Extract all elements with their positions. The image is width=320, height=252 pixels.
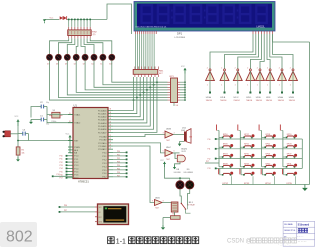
svg-text:LCD12864: LCD12864 [175, 37, 186, 39]
inverter U2:D [246, 67, 255, 101]
svg-text:P30: P30 [117, 151, 120, 153]
inverter U3:A [278, 67, 287, 101]
svg-text:KP30: KP30 [266, 163, 271, 165]
wire net label near keypad [205, 161, 219, 163]
keypad button KP20 [219, 144, 233, 148]
svg-text:74HC04: 74HC04 [256, 100, 262, 102]
svg-text:P32: P32 [117, 158, 120, 160]
LED D6 [55, 54, 61, 65]
svg-text:P0.1/AD1: P0.1/AD1 [98, 112, 107, 115]
svg-text:P13: P13 [60, 165, 63, 167]
svg-text:KP20: KP20 [223, 144, 228, 146]
wire P2 to U5:B [113, 135, 165, 137]
wires LCD to inverters fan [210, 34, 310, 71]
U1 right pin names [98, 109, 128, 179]
svg-text:(R): (R) [93, 34, 96, 36]
svg-text:74HC04: 74HC04 [289, 100, 295, 102]
svg-text:DP1: DP1 [177, 32, 183, 36]
LED D5 [64, 54, 70, 65]
capacitor C2 [37, 102, 49, 108]
LED D9 green [184, 169, 194, 189]
LED D8 red [174, 169, 184, 189]
svg-text:74HC04: 74HC04 [220, 100, 226, 102]
svg-text:1: 1 [235, 85, 236, 87]
svg-text:1: 1 [257, 85, 258, 87]
resistor R1 [16, 147, 25, 155]
svg-text:74HC04: 74HC04 [246, 100, 252, 102]
svg-text:7407: 7407 [155, 208, 159, 210]
svg-text:VSS VDD VEE RS RW E D0 D1: VSS VDD VEE RS RW E D0 D1 [135, 26, 167, 28]
svg-text:P10: P10 [208, 139, 211, 141]
svg-text:3: 3 [163, 132, 164, 134]
svg-text:P31: P31 [117, 154, 120, 156]
right vertical rail [309, 42, 311, 185]
svg-text:74HC04: 74HC04 [233, 100, 239, 102]
keypad button KP22 [262, 144, 276, 148]
svg-text:KP27: KP27 [287, 154, 292, 156]
svg-text:19: 19 [69, 113, 71, 115]
svg-text:22: 22 [110, 138, 112, 140]
U1 left pin stubs and names [60, 113, 82, 180]
svg-text:KP16: KP16 [223, 134, 228, 136]
watermark CSDN [227, 238, 307, 246]
resistor pack RN2 [68, 19, 98, 39]
wire VCC rail to LCD supply [107, 4, 132, 34]
svg-text:P0.7/AD7: P0.7/AD7 [98, 131, 107, 134]
capacitor C1 [37, 116, 49, 126]
reset button [3, 131, 19, 138]
svg-text:1: 1 [207, 85, 208, 87]
svg-text:U3:A: U3:A [278, 96, 283, 99]
inverter U2:A [206, 67, 215, 101]
svg-text:2: 2 [257, 67, 258, 69]
svg-text:6: 6 [174, 151, 175, 153]
svg-text:2: 2 [267, 67, 268, 69]
svg-text:LED-GREEN: LED-GREEN [184, 172, 194, 174]
LCD left pin stubs [136, 31, 157, 34]
svg-text:PSEN: PSEN [74, 147, 80, 149]
svg-text:P37: P37 [117, 175, 120, 177]
svg-text:KP25: KP25 [244, 154, 249, 156]
svg-text:P0.5/AD5: P0.5/AD5 [98, 125, 107, 128]
svg-text:U2:D: U2:D [246, 97, 251, 99]
svg-text:2: 2 [221, 67, 222, 69]
svg-text:2: 2 [235, 67, 236, 69]
svg-text:P11: P11 [60, 159, 63, 161]
svg-text:XTAL2: XTAL2 [74, 122, 81, 125]
wire buzzer to ground arrow [175, 162, 181, 164]
svg-text:P0.3/AD3: P0.3/AD3 [98, 119, 107, 122]
svg-text:30p: 30p [46, 124, 49, 126]
svg-text:5: 5 [163, 151, 164, 153]
svg-text:74HC04: 74HC04 [278, 100, 284, 102]
vcc terminal top-left [43, 18, 54, 24]
vcc for D8 D9 [160, 160, 190, 179]
keypad button KP35 [282, 169, 297, 185]
wire P1.7 net stub [52, 174, 73, 177]
keypad row wires [208, 137, 303, 170]
svg-text:CSDN @: CSDN @ [227, 239, 252, 245]
keypad button KP33 [239, 169, 254, 185]
LED data bus wires [50, 60, 168, 100]
svg-text:KP23: KP23 [287, 144, 292, 146]
bus junction dots [133, 81, 158, 101]
svg-text:37: 37 [110, 115, 112, 117]
svg-text:ALE: ALE [74, 149, 78, 152]
svg-text:1: 1 [247, 85, 248, 87]
svg-text:2: 2 [247, 67, 248, 69]
svg-text:18: 18 [69, 121, 71, 123]
svg-text:KP21: KP21 [244, 144, 249, 146]
svg-text:P0.4/AD4: P0.4/AD4 [98, 122, 107, 125]
svg-text:LM032L: LM032L [257, 26, 266, 28]
LED D4 [73, 54, 79, 65]
capacitor C3 [18, 130, 29, 141]
keypad button KP30 [262, 163, 276, 167]
keypad column wires [216, 125, 283, 167]
svg-text:P15: P15 [60, 171, 63, 173]
ground arrow buzzer [173, 164, 176, 169]
svg-text:36: 36 [110, 118, 112, 120]
wire XTAL1 [47, 107, 73, 115]
VCC power rail top-left [44, 18, 107, 20]
svg-text:P0.0/AD0: P0.0/AD0 [98, 109, 107, 112]
keypad button KP27 [283, 154, 297, 158]
svg-text:30p: 30p [46, 102, 49, 104]
RTC module U4 DS1302 [95, 204, 129, 225]
svg-text:74HC04: 74HC04 [266, 100, 272, 102]
wire P2 to U5:C [113, 143, 165, 153]
svg-text:U2:A: U2:A [206, 96, 211, 99]
inverter U3:B [289, 67, 298, 101]
svg-text:2: 2 [279, 67, 280, 69]
svg-text:25: 25 [110, 147, 112, 149]
LED D7 [47, 54, 53, 65]
svg-text:P2.3/A11: P2.3/A11 [98, 145, 107, 148]
ground keypad [302, 185, 308, 192]
keypad button KP21 [240, 144, 254, 148]
svg-text:U3:B: U3:B [289, 97, 294, 99]
P0 bus wires [113, 77, 157, 132]
svg-text:32: 32 [110, 131, 112, 133]
svg-text:KP17: KP17 [244, 134, 249, 136]
svg-text:AT89C51: AT89C51 [78, 180, 89, 184]
svg-text:U5:C: U5:C [166, 147, 171, 149]
resistor pack RP1 [168, 76, 186, 107]
keypad button KP26 [262, 154, 276, 158]
svg-text:KP26: KP26 [266, 154, 271, 156]
svg-text:KP29: KP29 [244, 163, 249, 165]
svg-text:34: 34 [110, 124, 112, 126]
svg-text:24: 24 [110, 144, 112, 146]
LED D2 [91, 54, 97, 65]
keypad button KP23 [283, 144, 297, 148]
svg-text:U5:B: U5:B [166, 128, 171, 130]
svg-text:- .. - .. - ..: - .. - .. - .. [278, 242, 291, 246]
LCD right pin stubs [253, 31, 273, 34]
svg-text:1: 1 [267, 85, 268, 87]
keypad button KP31 [283, 163, 297, 167]
keypad bottom rail [222, 184, 310, 186]
svg-text:U2:C: U2:C [234, 97, 239, 99]
svg-text:BUZ1: BUZ1 [182, 149, 188, 151]
svg-text:KP28: KP28 [223, 163, 228, 165]
LED D3 [82, 54, 88, 65]
svg-text:U5:D: U5:D [155, 198, 160, 200]
keypad button KP18 [262, 134, 276, 138]
keypad button KP34 [261, 169, 276, 185]
LED D0 [109, 54, 115, 65]
svg-text:U1: U1 [74, 103, 78, 107]
svg-text:P17: P17 [60, 178, 63, 180]
LED D1 [100, 54, 106, 65]
svg-text:U2:B: U2:B [220, 97, 225, 99]
keypad button KP28 [219, 163, 233, 167]
svg-text:39: 39 [110, 109, 112, 111]
svg-text:33: 33 [110, 128, 112, 130]
vcc EA pin [66, 133, 74, 152]
title block [283, 221, 315, 246]
svg-text:1: 1 [279, 85, 280, 87]
wire U5C to buzzer [173, 153, 177, 159]
svg-text:......: ...... [298, 238, 308, 244]
svg-text:KP31: KP31 [287, 163, 292, 165]
svg-text:21: 21 [110, 135, 112, 137]
svg-text:23: 23 [110, 141, 112, 143]
wires RN2 to LEDs fan [50, 38, 112, 54]
svg-text:P13: P13 [208, 168, 211, 170]
svg-text:P0.6/AD6: P0.6/AD6 [98, 128, 107, 131]
svg-text:P10: P10 [60, 156, 63, 158]
svg-text:DESIGN TITLE:: DESIGN TITLE: [284, 230, 296, 232]
svg-text:KP19: KP19 [287, 134, 292, 136]
svg-text:P35: P35 [117, 168, 120, 170]
svg-text:U2:E: U2:E [256, 97, 261, 99]
inverter U2:B [220, 67, 229, 101]
svg-text:XTAL1: XTAL1 [74, 114, 81, 117]
resistor pack RN1 [133, 34, 164, 77]
keypad button KP29 [240, 163, 254, 167]
svg-text:74HC04: 74HC04 [206, 100, 212, 102]
svg-text:U2:F: U2:F [266, 97, 271, 99]
svg-text:P33: P33 [117, 161, 120, 163]
svg-text:P17: P17 [57, 174, 60, 176]
relay RL1 [171, 202, 195, 213]
svg-text:38: 38 [110, 112, 112, 114]
buffer U5:C [163, 147, 180, 161]
svg-text:51board: 51board [298, 222, 310, 226]
svg-text:2: 2 [290, 67, 291, 69]
buffer U5:B [163, 128, 184, 141]
wire XTAL2 [47, 115, 73, 123]
svg-text:P12: P12 [60, 162, 63, 164]
inverter U2:E [256, 67, 265, 101]
speaker LS1 [181, 127, 192, 143]
svg-text:10k: 10k [22, 152, 25, 154]
svg-text:P14: P14 [60, 168, 63, 170]
svg-text:KP22: KP22 [266, 144, 271, 146]
svg-text:7407: 7407 [166, 140, 170, 142]
svg-text:P17: P17 [206, 161, 209, 163]
inverter U2:F [266, 67, 275, 101]
svg-text:LED-RED: LED-RED [174, 172, 182, 174]
svg-text:1: 1 [290, 85, 291, 87]
wires D8 D9 to relay contacts [180, 189, 190, 206]
svg-text:P0.2/AD2: P0.2/AD2 [98, 116, 107, 119]
svg-text:P36: P36 [64, 205, 67, 207]
keypad button KP16 [219, 134, 233, 138]
caption figure 1-1 [108, 237, 199, 246]
ground speaker [178, 142, 184, 147]
watermark 802 box [0, 222, 37, 247]
svg-text:P2.1/A9: P2.1/A9 [99, 139, 107, 142]
diode pair [60, 16, 67, 20]
svg-text:P12: P12 [208, 158, 211, 160]
svg-text:P34: P34 [117, 165, 120, 167]
inverter U2:C [233, 67, 242, 101]
svg-text:KP24: KP24 [223, 154, 228, 156]
svg-text:802: 802 [6, 229, 33, 246]
svg-text:2: 2 [207, 67, 208, 69]
ground reset [16, 155, 20, 161]
ground relay [161, 218, 165, 230]
svg-text:103: 103 [176, 105, 179, 107]
svg-text:1-1: 1-1 [116, 238, 126, 245]
svg-text:35: 35 [110, 121, 112, 123]
keypad button KP32 [218, 169, 233, 185]
svg-text:P36: P36 [117, 172, 120, 174]
svg-text:KP18: KP18 [266, 134, 271, 136]
svg-text:RST: RST [99, 217, 102, 219]
microcontroller U1 AT89C51 [73, 103, 108, 183]
svg-text:P2.4/A12: P2.4/A12 [98, 148, 107, 151]
wire RST to MCU [17, 126, 73, 147]
wire P3 to U5:D [113, 146, 155, 203]
buzzer BUZ1 [177, 149, 188, 162]
svg-text:P11: P11 [208, 149, 211, 151]
svg-text:1: 1 [221, 85, 222, 87]
keypad button KP24 [219, 154, 233, 158]
svg-text:RN1: RN1 [159, 71, 164, 73]
keypad button KP25 [240, 154, 254, 158]
vcc reset [15, 116, 20, 126]
resistor R4 [163, 212, 180, 219]
svg-text:SCK: SCK [99, 207, 102, 209]
RP1 common rail to VCC [181, 66, 187, 100]
buffer U5:D [152, 198, 171, 210]
keypad button KP17 [240, 134, 254, 138]
ground crystal [29, 107, 36, 125]
svg-text:7407: 7407 [166, 159, 170, 161]
svg-text:P2.0/A8: P2.0/A8 [99, 136, 107, 139]
keypad button KP19 [283, 134, 297, 138]
wires P3 to DS1302 [59, 205, 95, 213]
svg-text:P2.2/A10: P2.2/A10 [98, 142, 107, 145]
LCD module DP1 [134, 2, 275, 32]
crystal X1 [49, 110, 63, 123]
label DP1 [175, 32, 186, 39]
svg-text:4: 4 [174, 132, 175, 134]
